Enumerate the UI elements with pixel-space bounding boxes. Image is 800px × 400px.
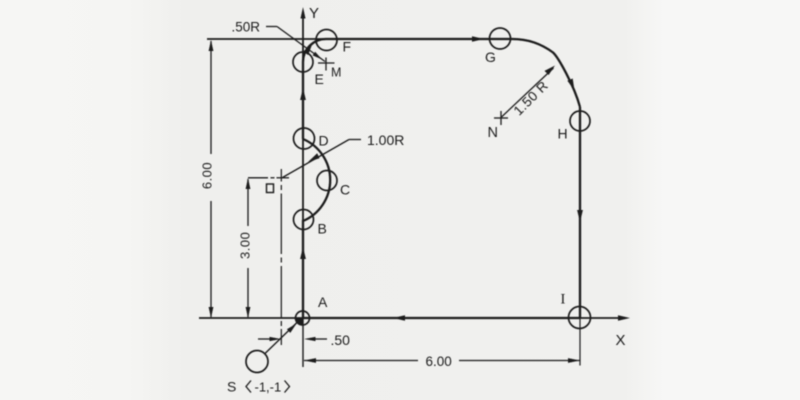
leader 1.00R: horizontal dash (349, 139, 361, 141)
dimension 6.00 left: dimension line upper part (210, 41, 212, 154)
path segment D to E (vertical) (302, 62, 304, 139)
svg-text:N: N (488, 125, 498, 141)
path segment F to G (top horizontal) (326, 38, 512, 40)
left angle bracket of S coords (246, 381, 251, 393)
tool circle I (569, 307, 591, 329)
corner arc 1.50R top right (512, 39, 580, 107)
svg-text:M: M (331, 66, 341, 80)
tool circle E (293, 52, 313, 72)
tool circle C (317, 171, 337, 191)
corner arc E to F (.50R) (303, 39, 326, 62)
X axis (199, 315, 630, 321)
svg-text:.50: .50 (331, 332, 351, 348)
arrowhead of S leader (287, 324, 297, 333)
direction arrow on 1.50R arc (567, 79, 574, 91)
svg-text:6.00: 6.00 (200, 162, 215, 189)
dimension 6.00 left: bottom arrowhead (209, 307, 214, 318)
direction arrow on F-G segment (472, 36, 484, 42)
svg-text:1.00R: 1.00R (367, 132, 404, 148)
center marker square (267, 184, 274, 193)
svg-text:A: A (318, 294, 328, 310)
dimension 3.00: bottom arrowhead (246, 307, 251, 318)
direction arrow on I-A segment (393, 315, 405, 321)
leader 1.00R: arrowhead (308, 153, 320, 162)
svg-text:I: I (561, 292, 566, 308)
direction arrow on A-B segment (300, 247, 306, 259)
svg-text:S: S (227, 379, 236, 395)
tool circle at origin A with filled quadrant (296, 311, 310, 325)
leader from S to origin (265, 323, 298, 355)
dimension 6.00 left: top arrowhead (209, 40, 214, 51)
dimension 6.00 left: top extension line (207, 38, 326, 40)
direction arrow on E-F arc (303, 44, 312, 56)
svg-text:B: B (318, 221, 327, 237)
svg-text:1.50 R: 1.50 R (511, 78, 551, 118)
dimension 6.00 left: dimension line lower part (210, 201, 212, 317)
direction arrow on H-I segment (577, 210, 583, 222)
svg-text:C: C (340, 182, 350, 198)
svg-text:F: F (343, 39, 352, 55)
svg-text:H: H (558, 126, 568, 142)
svg-text:-1,-1: -1,-1 (255, 380, 282, 395)
path segment A to B (vertical) (302, 220, 304, 318)
Y axis (301, 7, 306, 367)
dimension 6.00 bottom: line right part (459, 360, 580, 362)
tool circle H (570, 111, 590, 131)
tool circle G (490, 28, 511, 49)
dimension .50: left arrow (pointing right) (258, 337, 281, 341)
svg-text:6.00: 6.00 (426, 354, 452, 369)
dimension 3.00: top extension centerline (248, 177, 289, 179)
leader .50R: diagonal line (277, 27, 325, 62)
right angle bracket of S coords (285, 381, 290, 393)
svg-text:G: G (485, 49, 496, 65)
dimension 6.00 bottom: right arrowhead (568, 358, 580, 363)
label S coordinates (255, 380, 282, 395)
tool circle D (294, 128, 315, 149)
dimension 3.00: top arrowhead (246, 178, 251, 189)
dimension .50: right arrow (pointing left) (304, 337, 327, 341)
tool circle S (start) (246, 351, 268, 373)
radius 1.50R: center cross N (494, 111, 508, 125)
tool circle B (294, 210, 314, 230)
leader .50R: arrowhead (313, 52, 322, 60)
svg-text:3.00: 3.00 (238, 232, 253, 259)
svg-text:Y: Y (309, 5, 319, 22)
dimension 3.00: dimension line upper part (247, 179, 249, 226)
svg-text:E: E (315, 71, 324, 87)
path segment I to A (bottom horizontal) (303, 317, 580, 319)
radius 1.50R: radius line (502, 68, 554, 117)
tool circle F (316, 30, 337, 51)
radius 1.50R: arrowhead at arc (545, 66, 556, 76)
leader .50R: horizontal dash (266, 26, 277, 28)
dimension 6.00 bottom: left arrowhead (304, 358, 316, 363)
extension line below I (x=580) (579, 318, 581, 366)
arc B to D (1.00R bulge right) (303, 139, 330, 221)
path segment H to I (right vertical) (579, 107, 581, 318)
direction arrow on D-E segment (300, 88, 306, 100)
leader 1.00R: diagonal line (283, 140, 350, 178)
dimension 3.00: dimension line lower part (247, 268, 249, 317)
svg-text:X: X (616, 332, 626, 349)
svg-text:.50R: .50R (232, 20, 261, 35)
vertical centerline through arc center (x=281) (280, 169, 282, 345)
dimension 6.00 bottom: line left part (304, 360, 418, 362)
corner arc center cross M (318, 58, 335, 71)
svg-text:D: D (319, 133, 329, 149)
